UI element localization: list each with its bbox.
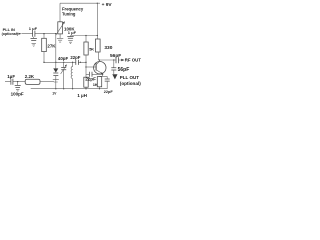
transistor Q1 bbox=[94, 61, 106, 73]
ground under pot bbox=[57, 38, 63, 42]
wire emitter tee bbox=[100, 75, 108, 77]
wire PLL IN to wiper node bbox=[22, 33, 56, 35]
ground under 100pF bbox=[16, 89, 19, 91]
wire tank top bbox=[44, 61, 86, 63]
wire base node vertical bbox=[85, 62, 87, 77]
wire supply branch to bypass cap bbox=[71, 35, 98, 37]
wire supply drop bbox=[96, 3, 98, 39]
node base resistor rail bbox=[85, 88, 86, 89]
arrow PLL IN bbox=[17, 33, 18, 35]
svg-text:22pF: 22pF bbox=[70, 55, 80, 60]
svg-text:27K: 27K bbox=[47, 44, 56, 49]
node PLL tap bbox=[113, 59, 114, 60]
wire 27K bottom lead bbox=[43, 52, 45, 63]
svg-text:1 μF: 1 μF bbox=[29, 26, 38, 31]
ground under bypass cap bbox=[32, 43, 36, 46]
svg-text:1V: 1V bbox=[52, 92, 57, 96]
node tank junction 27K bbox=[43, 62, 44, 63]
wire collector lead bbox=[98, 52, 100, 60]
capacitor 1uF series bbox=[33, 31, 35, 37]
svg-text:330: 330 bbox=[104, 45, 112, 51]
resistor base (left box) bbox=[84, 77, 88, 87]
svg-text:Tuning: Tuning bbox=[62, 11, 76, 16]
wire pot bottom lead bbox=[59, 34, 61, 38]
wire bottom ground rail bbox=[31, 88, 108, 90]
node wiper junction bbox=[55, 33, 56, 34]
svg-text:1 μH: 1 μH bbox=[77, 93, 87, 98]
capacitor 56pF RF coupling bbox=[116, 57, 118, 63]
inductor coil bbox=[72, 62, 74, 66]
ground under supply bypass cap bbox=[68, 41, 73, 44]
capacitor bypass on PLL line bbox=[33, 37, 35, 39]
node supply branch tee bbox=[97, 35, 98, 36]
wire pot top lead bbox=[59, 3, 61, 22]
potentiometer 100K body bbox=[58, 22, 63, 34]
svg-text:2.2K: 2.2K bbox=[25, 74, 35, 79]
svg-text:+ 9V: + 9V bbox=[102, 2, 113, 8]
capacitor 56pF PLL out bbox=[111, 68, 116, 70]
trimmer capacitor 40pF bbox=[63, 62, 65, 67]
node base tee bbox=[85, 62, 86, 63]
svg-text:40pF: 40pF bbox=[58, 56, 69, 61]
svg-text:100pF: 100pF bbox=[11, 92, 24, 97]
node tank junction right bbox=[80, 62, 81, 63]
svg-text:1 μF: 1 μF bbox=[68, 30, 77, 35]
svg-text:5K: 5K bbox=[89, 48, 94, 52]
node trimmer rail bbox=[63, 88, 64, 89]
node +9V tee junction bbox=[97, 3, 98, 4]
capacitor 1uF supply bypass bbox=[70, 35, 72, 38]
svg-text:(optional): (optional) bbox=[2, 32, 19, 36]
wire 27K top lead bbox=[43, 34, 45, 39]
arrow PLL OUT bbox=[112, 74, 117, 79]
resistor 330 bbox=[96, 39, 101, 52]
svg-text:RF OUT: RF OUT bbox=[125, 58, 142, 63]
svg-text:56pF: 56pF bbox=[118, 67, 130, 73]
node tank junction coil bbox=[72, 62, 73, 63]
node 100pF tap bbox=[17, 81, 18, 82]
node collector junction bbox=[99, 59, 100, 60]
svg-text:56pF: 56pF bbox=[110, 53, 121, 59]
svg-text:(optional): (optional) bbox=[120, 81, 141, 86]
resistor 2.2K bbox=[25, 79, 40, 84]
capacitor 1uF modulation series bbox=[11, 79, 13, 85]
node coil rail bbox=[72, 88, 73, 89]
resistor 27K bbox=[42, 38, 47, 51]
node varactor rail bbox=[55, 88, 56, 89]
capacitor 100pF shunt bbox=[17, 82, 19, 86]
wire PLL tap drop bbox=[113, 60, 115, 68]
ground bars varactor bottom bbox=[53, 80, 59, 82]
resistor 1K emitter bbox=[97, 77, 101, 87]
arrow RF OUT bbox=[121, 59, 124, 62]
capacitor emitter bypass bbox=[106, 76, 108, 78]
node emitter resistor rail bbox=[99, 88, 100, 89]
svg-text:1μF: 1μF bbox=[7, 74, 15, 79]
wire top supply rail bbox=[60, 2, 100, 4]
svg-text:22pF: 22pF bbox=[104, 90, 114, 94]
svg-text:1K: 1K bbox=[93, 82, 98, 87]
wire base lead bbox=[86, 66, 96, 68]
potentiometer wiper arrow bbox=[56, 23, 64, 35]
node tank junction wiper bbox=[55, 62, 56, 63]
wire modulation line stub bbox=[5, 81, 25, 83]
varactor diode bbox=[55, 62, 57, 68]
svg-text:PLL OUT: PLL OUT bbox=[120, 75, 139, 80]
wire RF out bbox=[99, 59, 121, 61]
capacitor 22pF series in tank wire bbox=[76, 60, 79, 65]
wire bias resistor top lead bbox=[85, 36, 87, 43]
capacitor 22pF feedback bbox=[86, 73, 103, 75]
node feedback emitter bbox=[102, 74, 103, 75]
node junction PLL wire / 27K bbox=[43, 33, 44, 34]
wire 2.2K to varactor node bbox=[40, 81, 54, 83]
resistor 5K base bias bbox=[84, 42, 88, 55]
wire bias resistor bottom lead bbox=[85, 55, 87, 62]
node tank junction trimmer bbox=[63, 62, 64, 63]
wire wiper vertical to tank bbox=[55, 34, 57, 63]
node bias resistor tap bbox=[85, 35, 86, 36]
